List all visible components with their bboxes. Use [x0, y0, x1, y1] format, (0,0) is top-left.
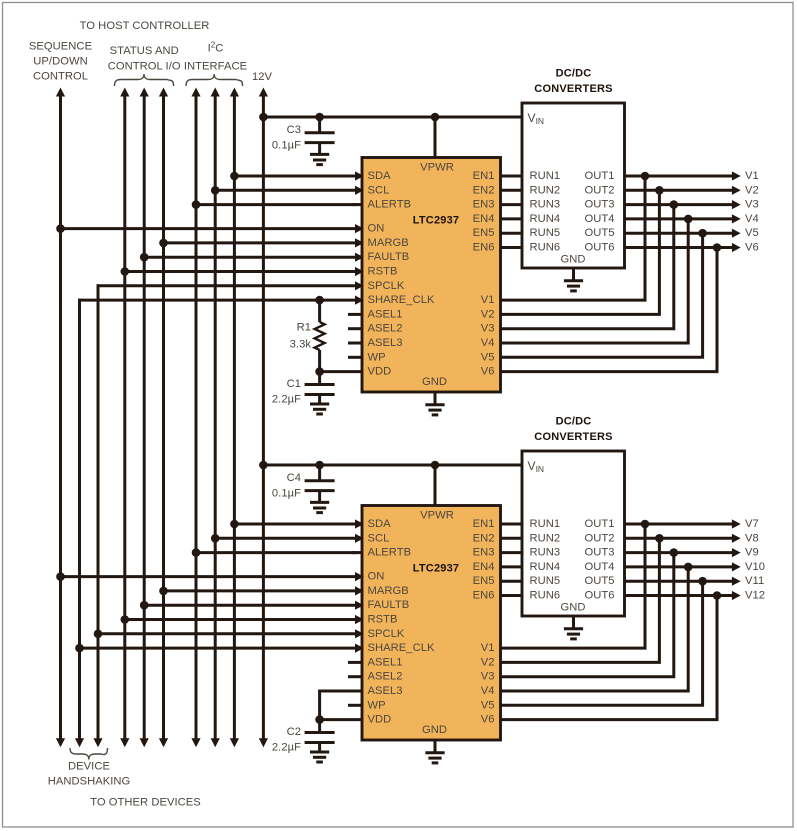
junction rail / C4: [315, 461, 324, 470]
junction 12V bus / rail: [259, 461, 268, 470]
arrow output V6: [732, 243, 741, 252]
junction ON bus: [56, 572, 65, 581]
svg-text:LTC2937: LTC2937: [413, 215, 459, 227]
svg-text:CONTROL I/O: CONTROL I/O: [108, 61, 181, 73]
svg-text:V8: V8: [745, 532, 759, 544]
svg-text:TO OTHER DEVICES: TO OTHER DEVICES: [90, 797, 201, 809]
arrow into U2 MARGB: [355, 586, 364, 595]
wire U2 RSTB input: [125, 618, 357, 621]
svg-text:RUN1: RUN1: [530, 170, 561, 182]
svg-text:RUN4: RUN4: [530, 213, 561, 225]
svg-text:VDD: VDD: [368, 366, 392, 378]
junction rail / VPWR drop: [431, 113, 440, 122]
wire feedback OUT2 to U1 V2: [501, 190, 660, 314]
svg-text:ASEL1: ASEL1: [368, 656, 403, 668]
wire U1 ON input: [61, 227, 358, 230]
wire OUT5 to output V11: [625, 580, 736, 583]
wire feedback OUT4 to U2 V4: [501, 567, 689, 691]
wire U2 SPCLK input: [98, 632, 357, 635]
brace I2C group: [186, 74, 243, 86]
arrow into U1 MARGB: [355, 238, 364, 247]
junction RSTB bus: [121, 267, 130, 276]
svg-text:RUN3: RUN3: [530, 547, 561, 559]
arrow output V9: [732, 548, 741, 557]
junction VDD / C1: [315, 367, 324, 376]
junction SCL bus: [211, 534, 220, 543]
svg-text:2.2µF: 2.2µF: [272, 394, 301, 406]
wire U2 SHARE_CLK input: [80, 647, 358, 650]
wire 12V rail to VIN (U1 block): [263, 116, 522, 119]
svg-text:INTERFACE: INTERFACE: [184, 61, 247, 73]
arrow into U2 ON: [355, 572, 364, 581]
svg-text:V5: V5: [481, 699, 495, 711]
svg-text:OUT2: OUT2: [584, 184, 614, 196]
svg-text:R1: R1: [297, 322, 311, 334]
brace device handshaking group: [70, 748, 108, 760]
wire OUT6 to output V6: [625, 246, 736, 249]
wire EN2 to RUN2: [501, 537, 523, 540]
junction rail / VPWR drop: [431, 461, 440, 470]
ground below DC/DC: [572, 268, 575, 281]
wire EN1 to RUN1: [501, 175, 523, 178]
svg-text:VPWR: VPWR: [420, 509, 454, 521]
wire feedback OUT1 to U2 V1: [501, 524, 646, 648]
wire STATUS bus 1 (RSTB) vertical: [123, 95, 126, 740]
wire U1 FAULTB input: [144, 256, 357, 259]
junction RSTB bus: [121, 615, 130, 624]
svg-text:2.2µF: 2.2µF: [272, 742, 301, 754]
svg-text:RUN1: RUN1: [530, 518, 561, 530]
junction SHARE_CLK / R1: [315, 296, 324, 305]
arrow into U2 SPCLK: [355, 629, 364, 638]
capacitor C2 2.2uF: [318, 720, 321, 733]
op-amp/IC U1 LTC2937 body: [362, 158, 501, 393]
wire STATUS bus 2 (FAULTB) vertical: [143, 95, 146, 740]
arrow into U2 SCL: [355, 534, 364, 543]
svg-text:ON: ON: [368, 571, 385, 583]
junction SDA bus: [230, 172, 239, 181]
svg-text:V6: V6: [481, 366, 495, 378]
svg-text:OUT5: OUT5: [584, 227, 614, 239]
wire U1 SDA input: [234, 175, 357, 178]
wire U2 SCL input: [215, 537, 357, 540]
wire feedback OUT2 to U2 V2: [501, 538, 660, 662]
svg-text:RUN2: RUN2: [530, 184, 561, 196]
svg-text:ASEL2: ASEL2: [368, 323, 403, 335]
svg-text:SEQUENCE: SEQUENCE: [29, 41, 92, 53]
svg-text:V7: V7: [745, 518, 759, 530]
svg-text:FAULTB: FAULTB: [368, 251, 410, 263]
wire feedback OUT3 to U1 V3: [501, 205, 674, 329]
wire EN6 to RUN6: [501, 594, 523, 597]
wire U2 SDA input: [234, 523, 357, 526]
wire OUT4 to output V4: [625, 217, 736, 220]
arrow output V1: [732, 171, 741, 180]
svg-text:V5: V5: [481, 351, 495, 363]
svg-text:V11: V11: [745, 575, 764, 587]
svg-text:C4: C4: [287, 472, 301, 484]
svg-text:V3: V3: [481, 671, 495, 683]
svg-text:SCL: SCL: [368, 532, 390, 544]
junction FAULTB bus: [140, 253, 149, 262]
svg-text:CONVERTERS: CONVERTERS: [534, 431, 612, 443]
junction OUT2 feedback: [655, 534, 664, 543]
svg-text:OUT2: OUT2: [584, 532, 614, 544]
wire U1 VDD: [320, 370, 362, 373]
svg-text:V12: V12: [745, 590, 765, 602]
capacitor C4 0.1uF: [318, 465, 321, 481]
svg-text:EN3: EN3: [473, 199, 495, 211]
svg-text:12V: 12V: [252, 71, 273, 83]
svg-text:V4: V4: [481, 337, 495, 349]
capacitor C3 0.1uF: [318, 117, 321, 133]
svg-text:RUN5: RUN5: [530, 575, 561, 587]
svg-text:OUT4: OUT4: [584, 213, 614, 225]
svg-text:LTC2937: LTC2937: [413, 563, 459, 575]
arrow into U2 SDA: [355, 519, 364, 528]
svg-text:WP: WP: [368, 699, 386, 711]
svg-text:RUN2: RUN2: [530, 532, 561, 544]
arrow into U1 ON: [355, 224, 364, 233]
junction OUT1 feedback: [641, 520, 650, 529]
svg-text:DC/DC: DC/DC: [556, 416, 592, 428]
svg-text:RSTB: RSTB: [368, 266, 398, 278]
ground below U1: [434, 392, 437, 405]
svg-text:SDA: SDA: [368, 170, 392, 182]
wire EN4 to RUN4: [501, 565, 523, 568]
pin stub U2 ASEL1 (floating): [348, 661, 362, 664]
pin stub U2 ASEL2 (floating): [348, 675, 362, 678]
arrow into U2 RSTB: [355, 615, 364, 624]
svg-text:V3: V3: [745, 199, 759, 211]
svg-text:EN5: EN5: [473, 575, 495, 587]
wire EN4 to RUN4: [501, 217, 523, 220]
junction ALERTB bus: [192, 200, 201, 209]
arrow output V3: [732, 200, 741, 209]
junction SDA bus: [230, 520, 239, 529]
arrow output V4: [732, 214, 741, 223]
svg-text:MARGB: MARGB: [368, 585, 409, 597]
svg-text:CONVERTERS: CONVERTERS: [534, 83, 612, 95]
svg-text:EN6: EN6: [473, 242, 495, 254]
wire VPWR drop into U1: [434, 117, 437, 158]
svg-text:V1: V1: [481, 294, 495, 306]
junction SHARE_CLK bus: [75, 644, 84, 653]
wire 12V bus vertical: [262, 95, 265, 740]
wire EN2 to RUN2: [501, 189, 523, 192]
pin stub U1 ASEL3 (floating): [348, 342, 362, 345]
wire U1 RSTB input: [125, 270, 357, 273]
wire OUT6 to output V12: [625, 594, 736, 597]
svg-text:I2C: I2C: [208, 40, 224, 55]
wire U2 ALERTB input: [196, 551, 357, 554]
capacitor C1 2.2uF: [318, 372, 321, 385]
wire U2 MARGB input: [164, 589, 358, 592]
svg-text:V3: V3: [481, 323, 495, 335]
wire U1 MARGB input: [164, 241, 358, 244]
arrow into U1 SDA: [355, 171, 364, 180]
svg-text:V2: V2: [481, 656, 495, 668]
wire feedback OUT6 to U1 V6: [501, 248, 718, 372]
svg-text:RUN3: RUN3: [530, 199, 561, 211]
svg-text:ASEL1: ASEL1: [368, 308, 403, 320]
svg-text:DEVICE: DEVICE: [68, 761, 110, 773]
svg-text:UP/DOWN: UP/DOWN: [33, 56, 87, 68]
wire EN5 to RUN5: [501, 580, 523, 583]
svg-text:V6: V6: [745, 242, 759, 254]
wire I2C bus SCL vertical: [214, 95, 217, 740]
arrow output V10: [732, 562, 741, 571]
svg-text:ALERTB: ALERTB: [368, 199, 412, 211]
wire feedback OUT6 to U2 V6: [501, 596, 718, 720]
svg-text:OUT1: OUT1: [584, 518, 614, 530]
arrow into U2 SHARE_CLK: [355, 644, 364, 653]
svg-text:OUT3: OUT3: [584, 199, 614, 211]
junction FAULTB bus: [140, 601, 149, 610]
svg-text:EN4: EN4: [473, 561, 495, 573]
svg-text:SDA: SDA: [368, 518, 392, 530]
wire feedback OUT5 to U1 V5: [501, 233, 703, 357]
svg-text:SHARE_CLK: SHARE_CLK: [368, 642, 435, 654]
wire I2C bus SDA vertical: [233, 95, 236, 740]
junction OUT5 feedback: [698, 577, 707, 586]
block DC/DC converters body: [522, 103, 625, 268]
junction ALERTB bus: [192, 548, 201, 557]
svg-text:CONTROL: CONTROL: [33, 71, 88, 83]
svg-text:RUN6: RUN6: [530, 242, 561, 254]
wire OUT1 to output V1: [625, 175, 736, 178]
junction OUT5 feedback: [698, 229, 707, 238]
arrow into U1 RSTB: [355, 267, 364, 276]
wire EN1 to RUN1: [501, 523, 523, 526]
svg-text:0.1µF: 0.1µF: [272, 488, 301, 500]
svg-text:C3: C3: [287, 124, 301, 136]
wire EN3 to RUN3: [501, 551, 523, 554]
svg-text:SPCLK: SPCLK: [368, 628, 405, 640]
svg-text:V1: V1: [481, 642, 495, 654]
svg-text:OUT5: OUT5: [584, 575, 614, 587]
wire U1 SHARE_CLK input (corner to handshake bus): [78, 299, 357, 302]
arrow output V7: [732, 519, 741, 528]
svg-text:V4: V4: [745, 213, 759, 225]
pin stub U1 ASEL2 (floating): [348, 327, 362, 330]
svg-text:SPCLK: SPCLK: [368, 280, 405, 292]
svg-text:FAULTB: FAULTB: [368, 599, 410, 611]
wire U2 ON input: [61, 575, 358, 578]
arrow output V5: [732, 229, 741, 238]
svg-text:V1: V1: [745, 170, 759, 182]
svg-text:RUN4: RUN4: [530, 561, 561, 573]
arrow into U1 SCL: [355, 186, 364, 195]
arrow output V8: [732, 534, 741, 543]
junction 12V bus / rail: [259, 113, 268, 122]
wire 12V rail to VIN (U2 block): [263, 464, 522, 467]
svg-text:EN2: EN2: [473, 532, 495, 544]
svg-text:SHARE_CLK: SHARE_CLK: [368, 294, 435, 306]
svg-text:V2: V2: [745, 184, 759, 196]
junction MARGB bus: [159, 239, 168, 248]
wire U1 SCL input: [215, 189, 357, 192]
svg-text:SCL: SCL: [368, 184, 390, 196]
junction OUT6 feedback: [713, 591, 722, 600]
svg-text:GND: GND: [560, 254, 585, 266]
svg-text:V6: V6: [481, 714, 495, 726]
svg-text:RUN5: RUN5: [530, 227, 561, 239]
junction OUT3 feedback: [670, 548, 679, 557]
wire OUT2 to output V2: [625, 189, 736, 192]
svg-text:3.3k: 3.3k: [290, 339, 312, 351]
svg-text:OUT6: OUT6: [584, 590, 614, 602]
svg-text:V10: V10: [745, 561, 765, 573]
wire I2C bus ALERTB vertical: [195, 95, 198, 740]
svg-text:ON: ON: [368, 223, 385, 235]
junction SCL bus: [211, 186, 220, 195]
junction VDD / C2: [315, 715, 324, 724]
pin stub U1 WP (floating): [348, 356, 362, 359]
junction SPCLK bus: [94, 630, 103, 639]
wire SHARE_CLK handshake bus vertical: [78, 299, 81, 740]
wire SPCLK handshake bus vertical: [97, 284, 100, 739]
svg-text:DC/DC: DC/DC: [556, 68, 592, 80]
svg-text:ALERTB: ALERTB: [368, 547, 412, 559]
resistor R1 3.3k: [318, 300, 321, 322]
junction OUT4 feedback: [684, 215, 693, 224]
pin stub U1 ASEL1 (floating): [348, 313, 362, 316]
svg-text:STATUS AND: STATUS AND: [110, 45, 179, 57]
svg-text:MARGB: MARGB: [368, 237, 409, 249]
svg-text:VPWR: VPWR: [420, 161, 454, 173]
svg-text:HANDSHAKING: HANDSHAKING: [48, 776, 131, 788]
svg-text:ASEL3: ASEL3: [368, 337, 403, 349]
arrow output V12: [732, 591, 741, 600]
svg-text:VDD: VDD: [368, 714, 392, 726]
arrow output V11: [732, 577, 741, 586]
wire feedback OUT3 to U2 V3: [501, 553, 674, 677]
op-amp/IC U2 LTC2937 body: [362, 506, 501, 741]
wire OUT4 to output V10: [625, 565, 736, 568]
svg-text:RSTB: RSTB: [368, 614, 398, 626]
svg-text:OUT6: OUT6: [584, 242, 614, 254]
wire feedback OUT5 to U2 V5: [501, 581, 703, 705]
svg-text:EN2: EN2: [473, 184, 495, 196]
svg-text:EN1: EN1: [473, 170, 495, 182]
wire OUT3 to output V3: [625, 203, 736, 206]
svg-text:ASEL3: ASEL3: [368, 685, 403, 697]
svg-text:OUT4: OUT4: [584, 561, 614, 573]
wire U1 SPCLK input (corner to handshake bus): [97, 284, 357, 287]
wire STATUS bus 3 (MARGB) vertical: [162, 95, 165, 740]
arrow into U1 FAULTB: [355, 253, 364, 262]
svg-text:OUT1: OUT1: [584, 170, 614, 182]
junction OUT2 feedback: [655, 186, 664, 195]
wire EN5 to RUN5: [501, 232, 523, 235]
svg-text:RUN6: RUN6: [530, 590, 561, 602]
wire feedback OUT4 to U1 V4: [501, 219, 689, 343]
svg-text:GND: GND: [560, 602, 585, 614]
svg-text:TO HOST CONTROLLER: TO HOST CONTROLLER: [80, 20, 210, 32]
wire U2 VDD: [320, 718, 362, 721]
svg-text:V4: V4: [481, 685, 495, 697]
svg-text:C1: C1: [287, 378, 301, 390]
wire EN6 to RUN6: [501, 246, 523, 249]
wire SEQUENCE bus vertical: [59, 95, 62, 740]
svg-text:EN5: EN5: [473, 227, 495, 239]
wire EN3 to RUN3: [501, 203, 523, 206]
brace status/control group: [115, 74, 174, 86]
wire U2 FAULTB input: [144, 604, 357, 607]
svg-text:EN6: EN6: [473, 590, 495, 602]
svg-text:V5: V5: [745, 227, 759, 239]
arrow output V2: [732, 186, 741, 195]
svg-text:ASEL2: ASEL2: [368, 671, 403, 683]
ground below DC/DC: [572, 616, 575, 629]
wire OUT5 to output V5: [625, 232, 736, 235]
ground below U2: [434, 740, 437, 753]
junction OUT6 feedback: [713, 243, 722, 252]
svg-text:EN1: EN1: [473, 518, 495, 530]
arrow into U2 FAULTB: [355, 601, 364, 610]
pin stub U2 WP (floating): [348, 704, 362, 707]
svg-text:EN4: EN4: [473, 213, 495, 225]
wire feedback OUT1 to U1 V1: [501, 176, 646, 300]
junction OUT4 feedback: [684, 563, 693, 572]
svg-text:GND: GND: [422, 724, 447, 736]
junction OUT1 feedback: [641, 172, 650, 181]
junction MARGB bus: [159, 587, 168, 596]
svg-text:V9: V9: [745, 547, 759, 559]
wire OUT1 to output V7: [625, 523, 736, 526]
junction ON bus: [56, 224, 65, 233]
wire U2 ASEL3 to VDD: [320, 691, 362, 720]
junction rail / C3: [315, 113, 324, 122]
wire U1 ALERTB input: [196, 203, 357, 206]
wire OUT3 to output V9: [625, 551, 736, 554]
wire OUT2 to output V8: [625, 537, 736, 540]
svg-text:0.1µF: 0.1µF: [272, 140, 301, 152]
svg-text:OUT3: OUT3: [584, 547, 614, 559]
svg-text:C2: C2: [287, 726, 301, 738]
block DC/DC converters body: [522, 451, 625, 616]
svg-text:EN3: EN3: [473, 547, 495, 559]
svg-text:V2: V2: [481, 308, 495, 320]
svg-text:WP: WP: [368, 351, 386, 363]
svg-text:GND: GND: [422, 376, 447, 388]
wire VPWR drop into U2: [434, 465, 437, 506]
junction OUT3 feedback: [670, 200, 679, 209]
